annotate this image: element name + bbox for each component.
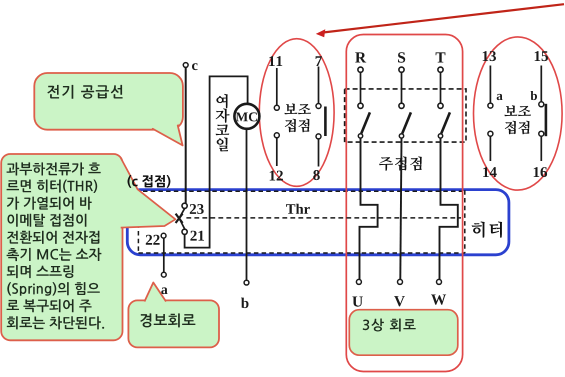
label b <box>241 298 249 309</box>
label 11 <box>269 56 282 66</box>
text line: 이메탈 접점이 <box>8 214 87 227</box>
wire: 21 to coil box <box>185 76 248 247</box>
label a (aux) <box>497 94 503 100</box>
Thr contact 21 (fixed) <box>182 229 187 234</box>
dashed box around thermal relay <box>138 190 464 253</box>
aux contact 7-8 (NC) <box>318 67 320 167</box>
terminal a <box>161 272 166 277</box>
label 22 <box>146 235 160 245</box>
label b (aux) <box>531 91 538 100</box>
Thr contact 22 <box>161 233 166 238</box>
text line: 로 복구되어 주 <box>7 299 92 312</box>
text line: (Spring)의 힘으 <box>7 282 100 296</box>
label 15 <box>535 51 548 61</box>
text line: 되며 스프링 <box>7 265 74 278</box>
main contact phase S <box>398 52 405 63</box>
wire: supply line c <box>185 68 187 204</box>
main contact phase T <box>436 52 446 62</box>
label: 여자코일 (vertical) <box>216 94 227 108</box>
label 16 <box>534 167 547 177</box>
trip cross X <box>176 214 183 223</box>
red box around 3-phase circuit R S T / U V W <box>346 35 462 372</box>
label U <box>352 297 362 307</box>
label 23 <box>190 204 204 214</box>
red ellipse around aux contacts 13/14 15/16 <box>474 37 563 190</box>
label MC <box>236 112 257 121</box>
aux contact 15-16 (NC, b) <box>540 66 542 162</box>
Thr movable blade <box>179 209 184 229</box>
label 7 <box>316 56 322 66</box>
green box: 3-phase circuit label <box>349 310 458 356</box>
text line: 르면 히터(THR) <box>7 180 98 194</box>
aux contact 11-12 (NO) <box>276 68 278 166</box>
label: 3상 회로 <box>363 319 416 332</box>
label: (c 접점) <box>128 175 171 188</box>
text line: 회로는 차단된다. <box>7 316 104 329</box>
text line: 가 가열되어 바 <box>7 197 92 210</box>
heater phase R <box>360 138 378 279</box>
label: 경보회로 <box>140 313 195 327</box>
label: 주접점 (main contacts) <box>379 156 422 170</box>
label 12 <box>270 171 283 181</box>
text line: 촉기 MC는 소자 <box>7 248 102 261</box>
label Thr <box>286 204 310 214</box>
label 13 <box>483 51 496 61</box>
dashed trip linkage line <box>186 217 461 219</box>
dashed box around main contacts <box>345 89 466 142</box>
label c <box>192 63 198 70</box>
heater phase S (wire) <box>400 138 401 279</box>
terminal c <box>183 63 188 68</box>
label: 보조접점 (right) <box>504 105 531 116</box>
wire: MC to terminal b <box>246 130 248 280</box>
text line: 전환되어 전자접 <box>7 231 99 244</box>
label: 전기 공급선 <box>47 85 122 99</box>
blue highlight box (thermal relay region) <box>127 190 509 255</box>
label W <box>431 295 446 305</box>
label V <box>394 296 405 306</box>
red ellipse around aux contacts 11/12 7/8 <box>259 39 334 187</box>
label 14 <box>483 167 497 177</box>
heater phase T <box>440 138 458 279</box>
main contact phase R <box>355 52 366 62</box>
red annotation arrow <box>322 4 564 32</box>
label: 보조접점 (left) <box>284 104 311 115</box>
coil MC circle <box>234 104 259 129</box>
callout bubble: alarm circuit label <box>128 300 219 347</box>
text line: 과부하전류가 흐 <box>7 162 101 175</box>
label 21 <box>190 231 204 241</box>
terminal b <box>244 280 249 285</box>
callout bubble: power supply line label <box>34 73 183 130</box>
label: 히터 (heater) <box>472 221 503 237</box>
label 8 <box>313 170 320 180</box>
label a <box>161 287 167 294</box>
wire: 22 to terminal a <box>163 238 165 272</box>
callout bubble: overload explanation text <box>1 154 122 340</box>
Thr contact 23 (fixed) <box>182 203 187 208</box>
aux contact 13-14 (NO, a) <box>489 66 491 162</box>
